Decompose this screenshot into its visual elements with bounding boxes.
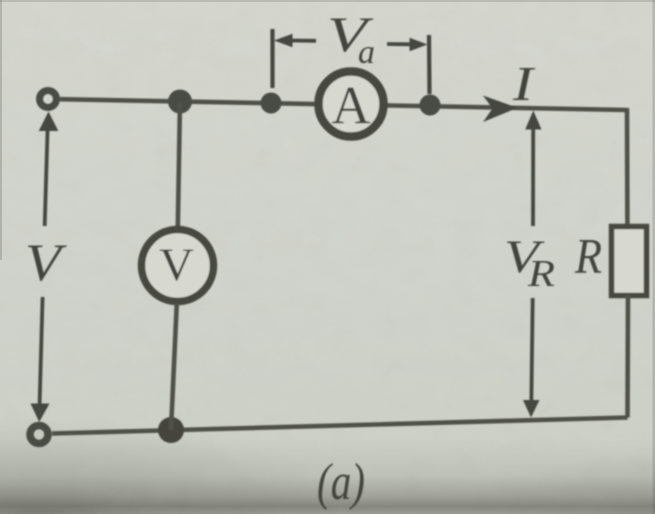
resistor R1 body [612,227,647,296]
VR arrow down head [523,400,540,418]
V source arrow up head [39,112,59,132]
VR arrow up head [525,111,541,130]
svg-text:I: I [512,56,536,111]
svg-text:(a): (a) [317,454,365,511]
ammeter U1 [319,72,384,137]
terminal bottom-left [30,426,48,444]
V source arrow lower shaft [40,297,43,407]
Va dimension tick left [270,29,274,88]
photo edge right [653,0,655,514]
Va arrow right shaft [387,42,412,46]
voltmeter M1 [142,230,214,302]
photo edge top [0,0,655,2]
svg-text:V: V [159,239,194,291]
svg-text:A: A [332,76,371,136]
Va arrow left head [274,34,293,47]
Va dimension tick right [427,35,432,94]
Va arrow left shaft [290,39,316,43]
wire right rail lower [625,295,630,418]
node junction dot 1 (voltmeter tap) [168,90,192,114]
VR arrow upper shaft [531,127,535,226]
svg-text:a: a [358,34,375,71]
svg-text:R: R [527,253,555,295]
bottom-right corner shadow [420,420,655,514]
bottom-left corner shadow [0,400,360,514]
terminal top-left [40,91,57,108]
Va arrow right head [410,38,428,51]
node junction dot bottom (voltmeter return) [158,417,184,443]
wire right rail upper [625,108,630,224]
current arrow I head [483,96,518,123]
photo edge left [0,0,2,260]
svg-text:V: V [25,234,67,292]
wire voltmeter branch upper [178,102,180,229]
wire voltmeter branch lower [171,303,177,430]
node junction dot 3 (Va right) [420,95,441,116]
wire bottom rail [52,418,628,434]
wire top rail [60,99,627,110]
node junction dot 2 (Va left) [261,93,282,114]
V source arrow upper shaft [45,128,48,226]
V source arrow down head [31,404,50,423]
VR arrow lower shaft [531,298,532,404]
svg-text:R: R [574,228,602,284]
